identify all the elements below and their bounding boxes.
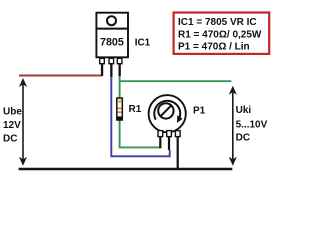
svg-text:Uki: Uki [236, 105, 252, 116]
screw head with slot [158, 103, 173, 118]
svg-text:7805: 7805 [100, 36, 124, 48]
wire: bottom ground rail [19, 168, 233, 171]
svg-text:Ube: Ube [3, 107, 22, 118]
wire: green output rail to Uki arrow [120, 80, 232, 82]
body [96, 29, 128, 58]
parts list box [174, 13, 270, 54]
svg-text:5...10V: 5...10V [236, 119, 268, 130]
wire: blue from IC pin2 to potentiometer wiper [111, 77, 169, 157]
wire: red input positive rail [19, 75, 102, 77]
svg-text:IC1: IC1 [135, 38, 151, 49]
voltage arrow Ube (double-headed) [19, 78, 27, 166]
IC IC1: 7805 voltage regulator (TO-220 package) [96, 13, 128, 77]
svg-text:P1: P1 [193, 106, 206, 117]
leg 2 (wiper) [167, 131, 172, 137]
svg-text:DC: DC [3, 134, 17, 145]
resistor R1 (470 ohm) [117, 98, 123, 120]
svg-text:P1 = 470Ω / Lin: P1 = 470Ω / Lin [178, 42, 250, 53]
svg-text:R1: R1 [129, 104, 142, 115]
leg 1 [158, 131, 163, 137]
rotation arrow arc [154, 101, 180, 121]
svg-text:R1 = 470Ω/ 0,25W: R1 = 470Ω/ 0,25W [178, 29, 262, 40]
svg-text:12V: 12V [3, 120, 21, 131]
potentiometer P1 (470 ohm trimmer) [149, 95, 186, 169]
wire: green output from IC pin3 down through R1 to pot leg1 [120, 76, 161, 147]
label Ube 12V DC [3, 107, 22, 145]
rotation arrowhead [177, 115, 183, 123]
leg 3 [175, 131, 180, 137]
svg-text:DC: DC [236, 132, 250, 143]
pin 2 (ground) [109, 58, 114, 63]
body circle [149, 95, 186, 132]
tab with mounting hole [96, 13, 128, 29]
pin 3 (output) [117, 58, 122, 63]
label Uki 5...10V DC [236, 105, 268, 143]
voltage arrow Uki (double-headed) [229, 86, 237, 166]
svg-text:IC1 = 7805 VR IC: IC1 = 7805 VR IC [178, 17, 257, 28]
pin 1 (input) [100, 58, 105, 63]
